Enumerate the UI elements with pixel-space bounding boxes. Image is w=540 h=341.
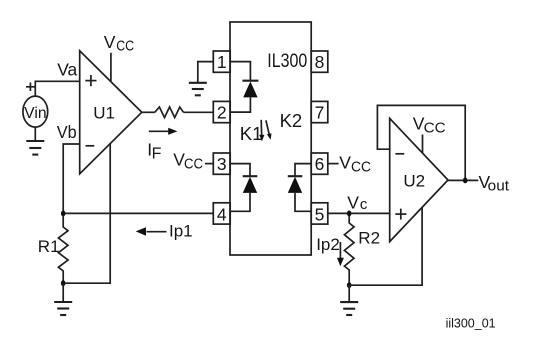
wire [349,208,422,286]
svg-text:c: c [360,196,368,213]
svg-text:6: 6 [315,154,325,174]
resistor R2 [344,216,354,286]
node Vc [347,193,368,217]
svg-text:V: V [347,193,359,213]
wire [34,127,36,141]
U1 minus input mark [86,145,95,147]
svg-text:U2: U2 [403,171,425,190]
svg-text:8: 8 [315,52,325,72]
U2 minus input mark [395,153,404,155]
pin 6 [311,153,328,174]
wire [142,111,155,113]
svg-text:V: V [339,153,351,173]
pin 1 [213,51,230,72]
svg-text:U1: U1 [93,104,115,123]
node junction [61,280,66,286]
svg-text:Ip2: Ip2 [316,235,340,254]
svg-text:5: 5 [315,205,325,225]
power VCC (U2) [413,114,446,153]
pin 4 [213,203,230,225]
wire [348,285,350,302]
svg-text:CC: CC [116,38,134,55]
pin 8 [311,51,328,72]
ground [189,83,207,96]
svg-text:V: V [104,32,116,52]
ground [26,141,44,155]
feedback wire [377,105,465,180]
wire [184,111,214,113]
wire [63,144,79,213]
svg-text:R2: R2 [358,229,380,248]
wire [63,144,110,283]
node junction [61,211,66,217]
wire [328,212,390,214]
pin 3 [213,153,230,174]
svg-text:K1: K1 [240,123,263,144]
current arrow Ip2 [337,242,344,266]
svg-text:Va: Va [57,59,77,79]
svg-text:R1: R1 [38,237,60,256]
node junction [463,178,468,184]
power VCC (pin 6) [328,153,371,176]
svg-text:iil300_01: iil300_01 [446,316,496,331]
svg-text:CC: CC [351,159,371,176]
photodiode PD1 (pins 3-4) [230,164,257,212]
op-amp U2 [390,118,448,241]
svg-text:IL300: IL300 [267,50,307,72]
svg-text:CC: CC [184,156,203,173]
svg-text:CC: CC [424,120,446,137]
wire [198,62,214,83]
U2 plus input mark [395,209,406,220]
svg-text:K2: K2 [280,110,303,131]
LED (pins 1-2) [230,62,258,113]
plus polarity mark [26,83,35,92]
svg-text:4: 4 [217,205,227,225]
U1 plus input mark [85,75,96,86]
svg-text:out: out [488,178,509,194]
light arrows K1 [259,120,271,141]
svg-text:Vin: Vin [24,105,46,122]
current arrow Ip1 [136,227,167,236]
ground [340,302,358,315]
pin 7 [311,101,328,122]
IC IL300 body [230,22,311,255]
svg-text:7: 7 [315,103,325,123]
photodiode PD2 (pins 5-6) [288,164,311,212]
pin 2 [213,101,230,122]
svg-text:3: 3 [217,154,227,174]
wire [63,212,213,214]
power VCC (pin 3) [173,150,213,173]
node junction [347,282,352,288]
voltage source Vin [23,96,48,127]
wire [35,81,79,96]
svg-text:Ip1: Ip1 [169,221,193,240]
resistor (LED series) [155,107,184,118]
svg-text:F: F [152,145,162,162]
wire [448,179,478,181]
current arrow IF [149,128,178,135]
pin 5 [311,203,328,225]
svg-text:2: 2 [217,103,227,123]
wire [62,283,64,302]
svg-text:Vb: Vb [57,122,77,142]
op-amp U1 [80,51,142,174]
power VCC (U1) [104,32,135,81]
resistor R1 [58,216,68,284]
ground [54,302,72,315]
svg-text:1: 1 [217,52,227,72]
